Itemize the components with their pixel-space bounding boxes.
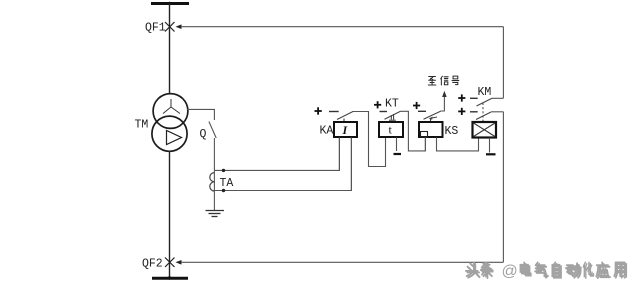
delay mark — [389, 114, 396, 120]
node: busbar junction dot bottom — [168, 276, 171, 279]
mechanical link dashes — [482, 103, 484, 122]
自 — [552, 262, 559, 276]
svg-text:t: t — [389, 123, 393, 137]
wire: TA secondary top — [214, 138, 339, 171]
wire: KS contact to signal arrow — [441, 95, 444, 111]
node: plus KM row1 — [458, 94, 465, 101]
wire: KM2 to QF2 trip line — [491, 111, 503, 113]
contact KA (left terminal) — [329, 111, 339, 113]
wire: KM pin to minus — [489, 138, 491, 153]
svg-text:QF1: QF1 — [145, 22, 166, 35]
relay coil KS — [419, 122, 443, 137]
wire: right vertical segment upper — [502, 27, 504, 99]
current transformer TA — [210, 173, 215, 191]
delta winding symbol — [167, 131, 182, 145]
wire: KT contact to KS coil — [401, 111, 426, 151]
node: plus KT branch — [374, 101, 381, 108]
transformer TM — [152, 94, 188, 152]
busbar top — [151, 2, 189, 5]
svg-text:Q: Q — [200, 128, 207, 141]
svg-text:TA: TA — [220, 177, 234, 190]
wire: Q to ground — [213, 138, 215, 210]
relay coil KT — [379, 122, 403, 137]
contact KS blade — [424, 111, 442, 119]
wire: KT pin to minus — [396, 138, 398, 152]
contact KM2 (left terminal) — [470, 111, 478, 113]
条 — [481, 262, 492, 276]
contact KM1 (left terminal) — [470, 97, 478, 99]
KS blade arrow mark — [429, 117, 437, 120]
wire: main feeder lower — [169, 151, 171, 278]
wire: KS pins — [424, 138, 426, 151]
wire: KA coil pins to TA — [338, 138, 340, 171]
node: plus KS branch — [413, 102, 420, 109]
wire: KM1 to QF1 trip line — [492, 97, 503, 99]
头 — [466, 262, 478, 276]
wire: main feeder upper — [169, 4, 171, 95]
busbar bottom — [152, 277, 188, 280]
node: minus below KT — [394, 153, 402, 155]
tick to KA box — [343, 119, 345, 123]
node: plus KM row2 — [458, 108, 465, 115]
watermark 头条 @电气自动化应用 — [467, 264, 626, 278]
node: minus below KM — [486, 153, 496, 155]
tick to KS box — [430, 119, 432, 122]
breaker QF1 (X mark) — [165, 22, 175, 32]
contact KA blade — [337, 111, 354, 119]
contact KM1 blade — [477, 98, 493, 106]
气 — [535, 262, 546, 276]
contact KS (left terminal) — [418, 110, 426, 112]
wire: tap to Q — [187, 109, 214, 120]
coil KM (box with X) — [473, 122, 497, 138]
svg-text:TM: TM — [135, 119, 149, 132]
contact KT (left terminal) — [380, 111, 388, 113]
wire: KA contact to KT coil — [354, 112, 386, 167]
node: plus KA branch — [315, 107, 322, 114]
svg-text:@: @ — [502, 263, 518, 280]
star winding symbol — [163, 99, 180, 114]
ground — [206, 211, 225, 217]
用 — [614, 262, 624, 276]
svg-text:KM: KM — [478, 86, 492, 99]
contact KT blade (delayed) — [385, 111, 401, 119]
应 — [596, 262, 608, 276]
电 — [520, 262, 529, 274]
breaker QF2 (X mark) — [165, 258, 175, 268]
svg-text:KS: KS — [445, 125, 459, 138]
switch Q blade — [209, 122, 216, 139]
wire: trip action line to QF2 with arrow — [176, 260, 182, 265]
动 — [566, 263, 579, 276]
relay coil KA — [334, 122, 357, 137]
svg-text:I: I — [342, 123, 349, 137]
node: TA polarity dot top — [222, 169, 225, 172]
wire: TA secondary bottom — [214, 138, 351, 191]
wire: trip action line to QF1 with arrow — [176, 24, 182, 29]
svg-text:KA: KA — [320, 125, 334, 138]
化 — [583, 262, 592, 276]
node: busbar junction dot — [168, 2, 172, 6]
svg-text:QF2: QF2 — [142, 258, 163, 271]
contact KM2 blade — [476, 112, 491, 120]
node: TA polarity dot bottom — [222, 189, 225, 192]
svg-text:KT: KT — [385, 98, 399, 111]
label: 至信号 (to signal) — [428, 76, 458, 85]
wire: right vertical segment lower — [502, 112, 504, 263]
